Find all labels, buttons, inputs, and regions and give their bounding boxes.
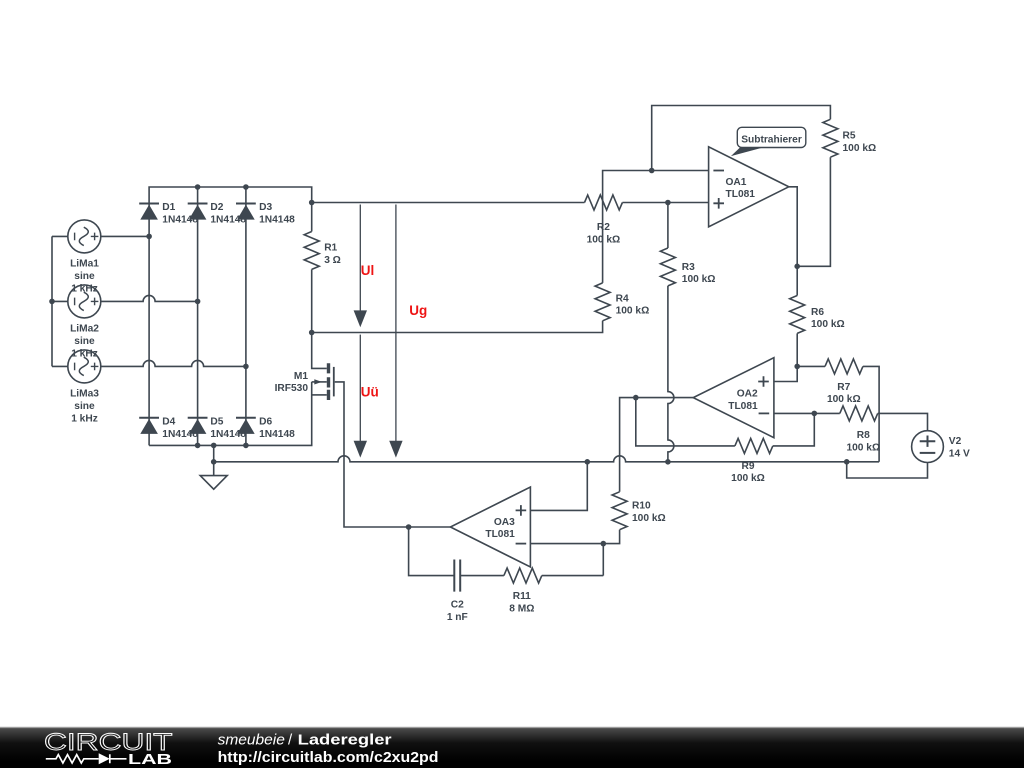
svg-text:Ul: Ul <box>361 263 375 278</box>
svg-text:TL081: TL081 <box>726 189 756 200</box>
svg-text:100 kΩ: 100 kΩ <box>616 306 650 317</box>
svg-text:Laderegler: Laderegler <box>298 731 392 748</box>
svg-text:14 V: 14 V <box>949 448 970 459</box>
svg-text:sine: sine <box>74 336 95 347</box>
svg-text:LiMa3: LiMa3 <box>70 389 99 400</box>
svg-text:R10: R10 <box>632 500 651 511</box>
svg-text:D5: D5 <box>210 417 223 428</box>
svg-text:8 MΩ: 8 MΩ <box>509 604 534 615</box>
svg-text:100 kΩ: 100 kΩ <box>587 234 621 245</box>
svg-text:Subtrahierer: Subtrahierer <box>741 135 802 146</box>
svg-text:D4: D4 <box>162 417 175 428</box>
svg-text:LiMa1: LiMa1 <box>70 259 99 270</box>
svg-text:sine: sine <box>74 401 95 412</box>
svg-text:TL081: TL081 <box>485 529 515 540</box>
svg-text:LAB: LAB <box>128 752 172 768</box>
svg-text:R11: R11 <box>513 591 531 602</box>
svg-text:OA2: OA2 <box>737 388 758 399</box>
svg-text:IRF530: IRF530 <box>275 383 309 394</box>
svg-text:R1: R1 <box>324 242 337 253</box>
svg-text:1N4148: 1N4148 <box>259 429 295 440</box>
svg-text:R7: R7 <box>837 382 850 393</box>
svg-text:R5: R5 <box>843 131 856 142</box>
svg-text:1 nF: 1 nF <box>447 612 468 623</box>
svg-text:OA1: OA1 <box>726 177 747 188</box>
svg-text:R3: R3 <box>682 262 695 273</box>
svg-text:smeubeie: smeubeie <box>218 731 285 748</box>
svg-text:V2: V2 <box>949 436 962 447</box>
svg-text:M1: M1 <box>294 371 308 382</box>
svg-text:D1: D1 <box>162 202 175 213</box>
svg-text:http://circuitlab.com/c2xu2pd: http://circuitlab.com/c2xu2pd <box>218 749 439 766</box>
svg-text:100 kΩ: 100 kΩ <box>827 394 861 405</box>
svg-text:100 kΩ: 100 kΩ <box>846 442 880 453</box>
svg-text:R6: R6 <box>811 307 824 318</box>
svg-text:1N4148: 1N4148 <box>259 215 295 226</box>
svg-text:C2: C2 <box>451 600 464 611</box>
svg-text:100 kΩ: 100 kΩ <box>811 319 845 330</box>
svg-text:R2: R2 <box>597 222 610 233</box>
svg-text:100 kΩ: 100 kΩ <box>682 274 716 285</box>
svg-text:TL081: TL081 <box>728 401 758 412</box>
svg-text:100 kΩ: 100 kΩ <box>843 143 877 154</box>
svg-text:100 kΩ: 100 kΩ <box>731 473 765 484</box>
svg-text:3 Ω: 3 Ω <box>324 255 341 266</box>
svg-text:100 kΩ: 100 kΩ <box>632 513 666 524</box>
svg-text:D6: D6 <box>259 417 272 428</box>
svg-text:Ug: Ug <box>409 303 427 318</box>
svg-text:D3: D3 <box>259 202 272 213</box>
svg-text:R4: R4 <box>616 293 629 304</box>
svg-text:1 kHz: 1 kHz <box>71 413 98 424</box>
svg-text:Uü: Uü <box>361 385 379 400</box>
svg-text:OA3: OA3 <box>494 517 515 528</box>
svg-text:D2: D2 <box>210 202 223 213</box>
svg-text:LiMa2: LiMa2 <box>70 324 99 335</box>
svg-text:R8: R8 <box>857 430 870 441</box>
svg-text:sine: sine <box>74 271 95 282</box>
